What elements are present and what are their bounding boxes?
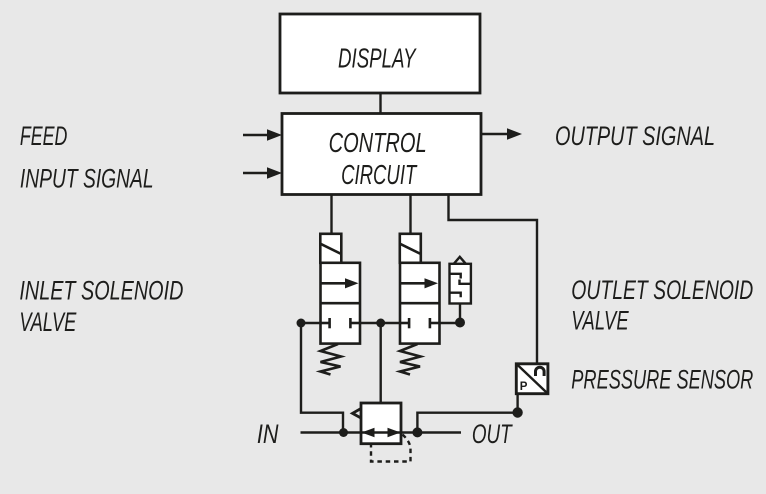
junction dot right bbox=[455, 318, 465, 328]
flow line and arrows bbox=[361, 431, 401, 433]
svg-text:OUTLET SOLENOID: OUTLET SOLENOID bbox=[571, 275, 753, 305]
svg-text:DISPLAY: DISPLAY bbox=[338, 43, 417, 74]
wire control to outlet valve solenoid bbox=[409, 195, 411, 235]
outlet solenoid valve V2 bbox=[400, 234, 440, 375]
pilot dashed line bbox=[371, 435, 411, 462]
svg-text:VALVE: VALVE bbox=[19, 307, 77, 337]
output signal arrow bbox=[481, 128, 522, 139]
V1 valve body bbox=[321, 263, 361, 344]
svg-text:INPUT SIGNAL: INPUT SIGNAL bbox=[20, 164, 154, 194]
V2 flow arrow bbox=[401, 282, 427, 285]
V2 spring bbox=[400, 344, 421, 375]
V1 solenoid coil box bbox=[320, 234, 341, 263]
svg-text:CIRCUIT: CIRCUIT bbox=[341, 159, 417, 190]
OUT line bbox=[401, 431, 461, 433]
display box bbox=[280, 14, 480, 93]
svg-text:PRESSURE SENSOR: PRESSURE SENSOR bbox=[571, 364, 753, 394]
junction dot middle bbox=[376, 319, 385, 328]
line out dot to sensor bbox=[417, 413, 517, 433]
svg-text:OUT: OUT bbox=[472, 419, 514, 449]
V1 flow arrow bbox=[321, 282, 347, 285]
inlet solenoid valve V1 bbox=[320, 234, 360, 375]
svg-text:FEED: FEED bbox=[20, 121, 68, 151]
pneumatic line valve1 to valve2 bbox=[360, 322, 400, 324]
svg-text:INLET SOLENOID: INLET SOLENOID bbox=[19, 275, 183, 305]
junction dot IN bbox=[339, 428, 348, 437]
svg-text:IN: IN bbox=[257, 419, 279, 449]
V2 blocked ports bbox=[400, 322, 409, 325]
relief chevron bbox=[353, 409, 362, 419]
input signal arrow bbox=[243, 167, 282, 178]
control circuit box bbox=[282, 114, 481, 195]
pneumatic line left dot to valve1 bbox=[301, 322, 321, 324]
junction dot sensor bbox=[512, 407, 522, 417]
wire sensor dot up bbox=[516, 394, 518, 413]
feed line down from left junction bbox=[301, 323, 343, 433]
main regulator valve bbox=[353, 403, 402, 444]
svg-text:P: P bbox=[520, 381, 528, 393]
feed input arrow bbox=[243, 129, 282, 140]
line middle junction to regulator bbox=[380, 323, 382, 403]
junction dot OUT bbox=[412, 427, 422, 437]
exhaust silencer bbox=[450, 257, 471, 323]
wire display-control bbox=[379, 93, 381, 114]
svg-text:CONTROL: CONTROL bbox=[329, 127, 427, 158]
pressure sensor bbox=[516, 364, 548, 394]
svg-text:VALVE: VALVE bbox=[571, 306, 629, 336]
wire control to pressure sensor bbox=[449, 195, 538, 365]
IN line bbox=[301, 431, 362, 433]
V2 valve body bbox=[400, 263, 440, 344]
junction dot left bbox=[297, 319, 306, 328]
pneumatic line valve2 to exhaust dot bbox=[440, 322, 461, 324]
V1 spring bbox=[321, 344, 342, 375]
V1 blocked ports bbox=[321, 322, 330, 325]
wire control to inlet valve solenoid bbox=[330, 195, 332, 235]
V2 solenoid coil box bbox=[400, 234, 421, 263]
svg-text:OUTPUT SIGNAL: OUTPUT SIGNAL bbox=[555, 121, 715, 151]
